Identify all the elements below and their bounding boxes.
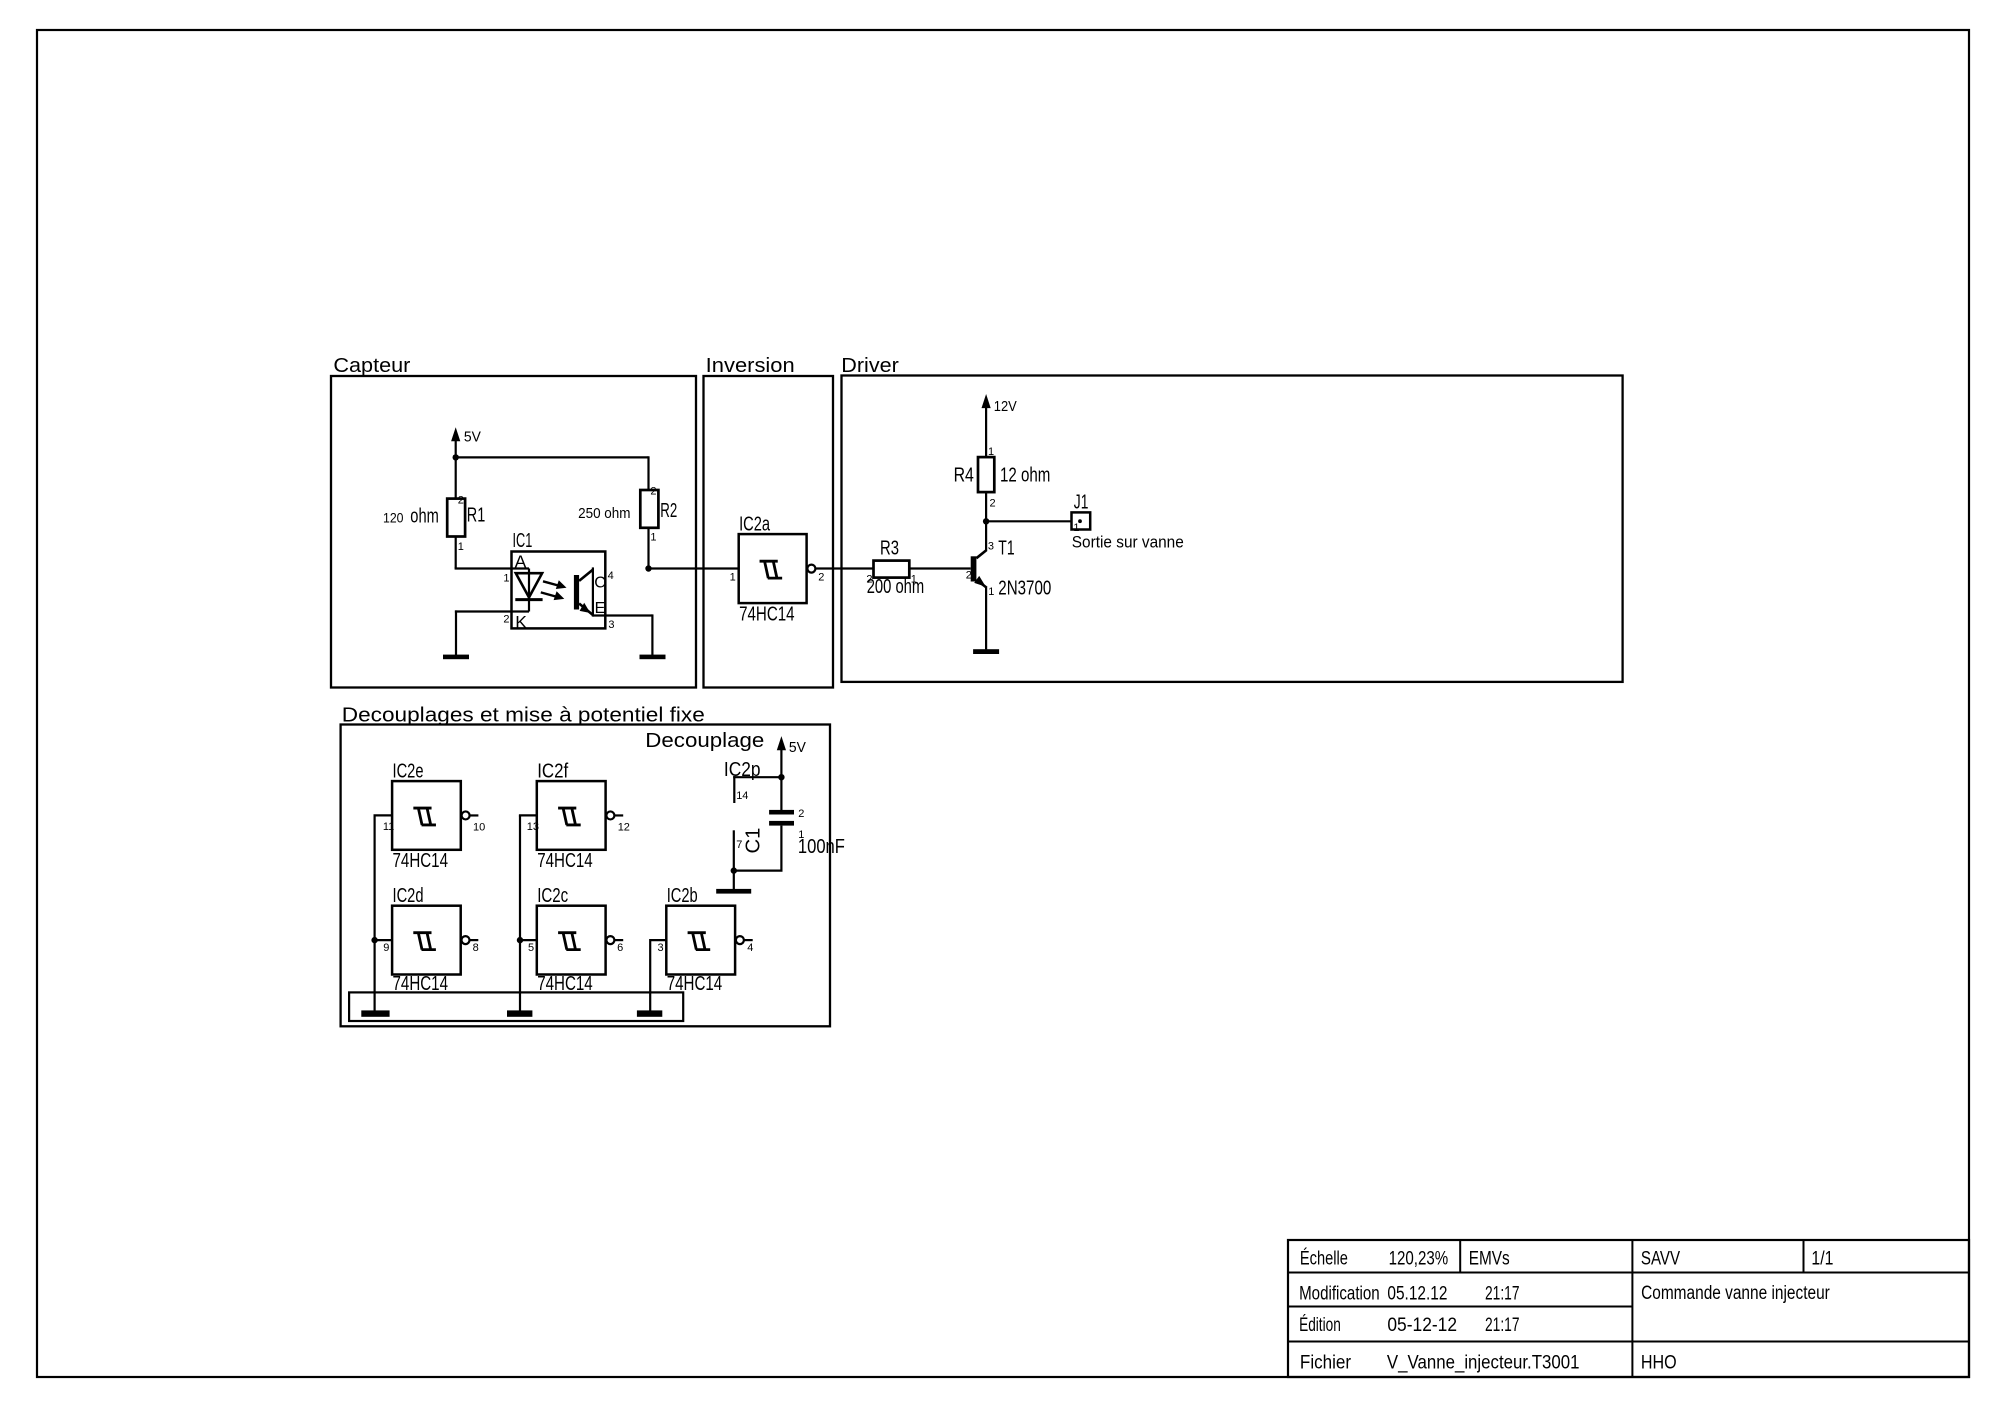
- resistor R1: [447, 499, 465, 537]
- svg-text:IC2p: IC2p: [724, 758, 761, 781]
- svg-text:Modification: Modification: [1299, 1283, 1380, 1304]
- svg-text:IC2a: IC2a: [739, 513, 770, 536]
- wire IC2d input: [375, 939, 393, 941]
- svg-text:Inversion: Inversion: [706, 355, 795, 377]
- svg-text:12 ohm: 12 ohm: [1000, 463, 1050, 486]
- svg-text:1: 1: [650, 531, 656, 543]
- wire node A to IC1 anode: [455, 567, 457, 568]
- transistor T1: [971, 522, 987, 649]
- svg-text:2: 2: [798, 808, 804, 820]
- svg-text:2: 2: [650, 486, 656, 498]
- svg-text:5V: 5V: [464, 428, 481, 445]
- ground (decouplage C1): [716, 889, 751, 894]
- svg-text:1: 1: [798, 829, 804, 841]
- svg-text:10: 10: [473, 822, 485, 834]
- power symbol 12V: [982, 394, 991, 457]
- resistor R2: [640, 490, 658, 528]
- svg-text:1: 1: [911, 573, 917, 585]
- gnd pin IC2p (pin 7 stub): [733, 830, 735, 871]
- svg-text:IC2c: IC2c: [537, 884, 568, 907]
- svg-text:2: 2: [818, 572, 824, 584]
- wire node to J1: [986, 520, 1071, 522]
- wire IC1 cathode to ground: [455, 610, 529, 612]
- svg-text:74HC14: 74HC14: [739, 602, 795, 625]
- resistor R3: [874, 561, 910, 578]
- power symbol 5V (capteur): [451, 427, 460, 499]
- node junction IC2c input: [517, 937, 523, 943]
- svg-text:3: 3: [657, 942, 663, 954]
- svg-text:Édition: Édition: [1299, 1315, 1341, 1336]
- svg-text:Decouplage: Decouplage: [645, 730, 764, 752]
- svg-text:SAVV: SAVV: [1641, 1249, 1680, 1270]
- svg-text:R1: R1: [467, 504, 486, 527]
- wire IC2b input: [650, 939, 666, 941]
- ground (bus right): [637, 1010, 662, 1016]
- svg-text:05-12-12: 05-12-12: [1387, 1315, 1457, 1336]
- power symbol 5V (decouplage): [777, 736, 786, 777]
- svg-text:4: 4: [747, 942, 753, 954]
- svg-text:9: 9: [383, 942, 389, 954]
- node junction R2 / IC1 collector: [645, 565, 651, 571]
- optocoupler IC1: [512, 552, 606, 629]
- wire IC2a output to R3: [816, 567, 874, 569]
- ground (bus left): [361, 1010, 389, 1016]
- svg-text:5V: 5V: [789, 739, 806, 756]
- resistor R4: [978, 457, 994, 492]
- svg-text:C: C: [594, 575, 606, 592]
- svg-text:Capteur: Capteur: [333, 355, 410, 377]
- svg-text:21:17: 21:17: [1485, 1283, 1520, 1304]
- svg-text:3: 3: [608, 619, 614, 631]
- svg-text:IC2b: IC2b: [667, 884, 698, 907]
- svg-text:74HC14: 74HC14: [393, 849, 449, 872]
- svg-text:5: 5: [528, 942, 534, 954]
- svg-text:IC2f: IC2f: [537, 760, 568, 783]
- svg-text:Fichier: Fichier: [1300, 1353, 1352, 1374]
- wire collector node to IC2a input: [649, 567, 739, 569]
- svg-text:13: 13: [527, 821, 539, 833]
- section box Decouplages et mise a potentiel fixe: [341, 725, 830, 1027]
- wire rail to R2 top: [647, 456, 649, 490]
- node junction IC2d input: [371, 937, 377, 943]
- inverter gate IC2f: [537, 781, 623, 850]
- svg-text:2N3700: 2N3700: [998, 577, 1051, 600]
- node junction pin7 / C1 ground: [731, 867, 737, 873]
- svg-text:V_Vanne_injecteur.T3001: V_Vanne_injecteur.T3001: [1387, 1353, 1580, 1374]
- wire bus mid vertical (IC2f/IC2c inputs): [519, 815, 521, 1010]
- potential bus bar rectangle: [349, 992, 683, 1021]
- node junction 5V / C1: [778, 774, 784, 780]
- ground (capteur right): [640, 655, 666, 660]
- svg-text:12: 12: [618, 822, 630, 834]
- svg-text:1: 1: [730, 572, 736, 584]
- svg-text:11: 11: [383, 821, 394, 833]
- svg-text:1: 1: [458, 541, 464, 553]
- svg-text:Driver: Driver: [841, 355, 899, 377]
- power pin IC2p (pin 14 stub): [733, 776, 735, 803]
- svg-text:2: 2: [458, 494, 464, 506]
- svg-text:2: 2: [966, 570, 972, 582]
- node junction collector / J1: [983, 518, 989, 524]
- svg-text:HHO: HHO: [1641, 1353, 1677, 1374]
- section box Inversion: [704, 376, 834, 688]
- svg-text:T1: T1: [998, 537, 1014, 560]
- svg-text:100nF: 100nF: [798, 835, 845, 858]
- svg-text:Échelle: Échelle: [1300, 1249, 1348, 1270]
- capacitor C1: [769, 810, 794, 826]
- svg-text:7: 7: [736, 839, 742, 851]
- svg-text:Commande vanne injecteur: Commande vanne injecteur: [1641, 1283, 1830, 1304]
- svg-text:1: 1: [988, 446, 994, 458]
- wire C1 bottom to ground node: [780, 826, 782, 871]
- inverter gate IC2d: [392, 906, 478, 975]
- wire R1 to node A: [455, 537, 457, 569]
- svg-text:IC2d: IC2d: [393, 884, 424, 907]
- svg-text:12V: 12V: [994, 398, 1017, 415]
- svg-text:1/1: 1/1: [1811, 1249, 1833, 1270]
- svg-text:05.12.12: 05.12.12: [1387, 1283, 1447, 1304]
- wire bus left vertical (IC2e/IC2d inputs): [374, 815, 376, 1010]
- svg-text:250 ohm: 250 ohm: [578, 505, 630, 522]
- wire node to ground (decouplage): [733, 871, 735, 890]
- svg-text:K: K: [515, 612, 527, 632]
- ground (capteur left): [443, 655, 469, 660]
- title block: [1288, 1240, 1969, 1377]
- inverter gate IC2b: [666, 906, 752, 975]
- svg-text:14: 14: [736, 790, 748, 802]
- svg-text:Decouplages et mise à potentie: Decouplages et mise à potentiel fixe: [342, 705, 705, 727]
- svg-text:6: 6: [617, 942, 623, 954]
- svg-text:R2: R2: [660, 499, 677, 522]
- connector J1: [1072, 512, 1091, 529]
- inverter gate IC2e: [392, 781, 478, 850]
- svg-text:1: 1: [988, 586, 994, 598]
- ground (driver): [973, 649, 999, 654]
- wire top rail 5V to R2: [456, 456, 649, 458]
- svg-text:120,23%: 120,23%: [1389, 1249, 1449, 1270]
- section box Driver: [842, 376, 1623, 682]
- wire IC2f input: [519, 814, 537, 816]
- svg-text:R3: R3: [880, 537, 899, 560]
- wire R3 to base of T1: [909, 567, 970, 569]
- wire 5V node to C1: [780, 777, 782, 810]
- section box Capteur: [331, 376, 696, 688]
- svg-text:1: 1: [503, 573, 509, 585]
- svg-text:8: 8: [473, 942, 479, 954]
- wire IC1 emitter to ground: [593, 614, 653, 616]
- svg-text:R4: R4: [954, 464, 974, 487]
- svg-text:3: 3: [988, 541, 994, 553]
- ground (bus middle): [507, 1010, 532, 1016]
- svg-text:Sortie sur vanne: Sortie sur vanne: [1072, 533, 1184, 552]
- svg-text:IC2e: IC2e: [393, 760, 424, 783]
- wire R4 to output node: [985, 492, 987, 521]
- wire R2 bottom to collector node: [647, 528, 649, 569]
- svg-text:ohm: ohm: [410, 506, 439, 528]
- svg-text:C1: C1: [742, 828, 765, 854]
- wire IC2e input: [374, 814, 393, 816]
- wire bus right vertical (IC2b input): [649, 939, 651, 1011]
- node junction on 5V rail: [453, 454, 459, 460]
- svg-text:2: 2: [990, 497, 996, 509]
- svg-text:4: 4: [608, 570, 614, 582]
- wire IC2c input: [520, 939, 537, 941]
- svg-text:IC1: IC1: [513, 529, 533, 552]
- svg-text:2: 2: [866, 573, 872, 585]
- svg-text:74HC14: 74HC14: [537, 849, 593, 872]
- svg-text:21:17: 21:17: [1485, 1315, 1520, 1336]
- svg-text:EMVs: EMVs: [1469, 1249, 1510, 1270]
- svg-text:2: 2: [503, 613, 509, 625]
- svg-text:J1: J1: [1074, 491, 1089, 514]
- wire 5V to IC2p pin14: [733, 776, 781, 778]
- svg-text:120: 120: [383, 510, 404, 526]
- svg-text:A: A: [515, 552, 527, 572]
- inverter gate IC2a: [739, 534, 816, 603]
- inverter gate IC2c: [537, 906, 623, 975]
